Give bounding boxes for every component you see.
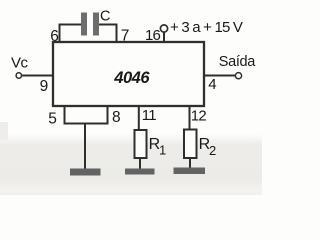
svg-text:Saída: Saída bbox=[219, 54, 256, 70]
svg-text:6: 6 bbox=[50, 28, 59, 45]
svg-text:8: 8 bbox=[112, 109, 121, 126]
svg-text:12: 12 bbox=[191, 107, 207, 124]
wire cap right bbox=[99, 24, 118, 26]
wire pin6 stub bbox=[59, 24, 61, 43]
capacitor C plates bbox=[81, 13, 87, 36]
svg-text:11: 11 bbox=[142, 107, 156, 124]
pin 11 stub bbox=[138, 106, 140, 129]
svg-text:Vc: Vc bbox=[11, 54, 29, 71]
terminal circle Vc bbox=[16, 73, 21, 78]
terminal circle pin16 bbox=[160, 25, 167, 32]
op-amp U1 4046 IC body bbox=[53, 42, 204, 106]
svg-text:9: 9 bbox=[40, 78, 49, 95]
terminal circle Saida bbox=[235, 73, 241, 79]
wire pin 4 to output bbox=[204, 75, 235, 77]
svg-text:1: 1 bbox=[159, 142, 166, 157]
svg-text:C: C bbox=[100, 9, 110, 25]
wire pins 5-8 U link bbox=[65, 106, 108, 124]
ground left bbox=[70, 169, 101, 176]
svg-text:7: 7 bbox=[121, 27, 130, 44]
svg-text:2: 2 bbox=[209, 143, 216, 158]
svg-text:5: 5 bbox=[48, 111, 57, 128]
svg-text:4: 4 bbox=[208, 76, 216, 93]
wire to ground bbox=[84, 124, 86, 169]
ground R2 bbox=[174, 168, 206, 175]
svg-text:16: 16 bbox=[145, 27, 161, 44]
wire R1 to ground bbox=[139, 158, 141, 169]
svg-text:+ 3 a + 15 V: + 3 a + 15 V bbox=[170, 19, 243, 36]
wire R2 to ground bbox=[189, 158, 191, 168]
pin 12 stub bbox=[189, 106, 191, 129]
resistor R2 bbox=[184, 130, 197, 159]
resistor R1 bbox=[135, 130, 147, 158]
svg-text:4046: 4046 bbox=[113, 69, 150, 87]
ground R1 bbox=[125, 169, 155, 175]
pin 16 stub bbox=[163, 31, 165, 42]
wire pin7 stub bbox=[116, 24, 118, 43]
wire cap left bbox=[59, 24, 83, 26]
wire Vc to pin 9 bbox=[22, 75, 53, 77]
